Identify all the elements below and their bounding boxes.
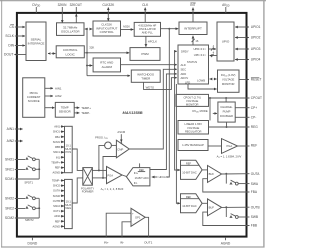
svg-text:OUT1: OUT1 xyxy=(53,209,60,213)
svg-text:AV = 1, 1.6384, 2V/V: AV = 1, 1.6384, 2V/V xyxy=(217,154,242,159)
svg-text:DRDY: DRDY xyxy=(181,50,189,54)
svg-text:OUTA: OUTA xyxy=(53,189,60,193)
svg-text:DIN: DIN xyxy=(8,44,14,48)
wire control logic to PWM xyxy=(84,52,129,54)
svg-text:ALD: ALD xyxy=(181,63,186,67)
pin CP+ (right) xyxy=(235,106,257,110)
wire status LPD to DVDD monitor xyxy=(188,84,217,89)
switch SPDT1 common xyxy=(24,159,40,184)
pin UPIO3 (right, bidirectional) xyxy=(235,47,260,51)
pin DIN (left) xyxy=(8,44,25,48)
svg-text:SWA: SWA xyxy=(251,182,259,186)
pin DGND (bottom) xyxy=(28,237,38,246)
svg-text:BUF: BUF xyxy=(209,206,215,210)
svg-text:IN-: IN- xyxy=(134,181,138,185)
wire to RTC and alarm xyxy=(87,65,92,67)
svg-text:WDTO: WDTO xyxy=(146,85,155,89)
svg-text:OUTB: OUTB xyxy=(53,199,60,203)
block PWM xyxy=(130,48,160,61)
svg-text:REF: REF xyxy=(251,144,257,148)
svg-text:REG: REG xyxy=(251,125,258,129)
svg-text:CP-: CP- xyxy=(251,116,256,120)
svg-text:MONITOR: MONITOR xyxy=(186,103,199,107)
wire current source AIN2 xyxy=(45,94,62,98)
svg-text:OUTB: OUTB xyxy=(251,205,260,209)
svg-text:SNC1: SNC1 xyxy=(5,168,14,172)
wire polarity former to PGA (pos) xyxy=(92,169,106,171)
wire DRDY + DAC A data xyxy=(175,51,180,170)
svg-text:IN-: IN- xyxy=(120,241,124,245)
wire HFCLK into ADC xyxy=(152,175,168,179)
svg-text:-: - xyxy=(132,222,133,226)
svg-text:TEMP-: TEMP- xyxy=(81,111,90,115)
svg-text:10-BIT DAC: 10-BIT DAC xyxy=(182,171,196,175)
svg-text:PUMP: PUMP xyxy=(223,110,231,114)
block RTC AND ALARM xyxy=(93,58,120,72)
wire DAC B to buffer B xyxy=(202,202,207,204)
svg-text:AIN2: AIN2 xyxy=(54,214,60,218)
svg-text:INTERFACE: INTERFACE xyxy=(28,42,45,46)
wire FBB feedback xyxy=(203,212,250,225)
svg-text:RESET: RESET xyxy=(251,78,262,82)
svg-text:STATUS: STATUS xyxy=(187,60,197,64)
svg-text:SCM2: SCM2 xyxy=(5,216,14,220)
block linear 1.65V voltage regulator xyxy=(178,121,209,135)
svg-text:MAX1358B: MAX1358B xyxy=(123,110,143,115)
DAC A 10-bit xyxy=(181,160,203,179)
svg-text:1.25V BANDGAP: 1.25V BANDGAP xyxy=(182,143,204,147)
block 32.768kHz oscillator xyxy=(57,23,85,36)
svg-text:IN1: IN1 xyxy=(56,155,61,159)
svg-text:UPIO3: UPIO3 xyxy=(251,47,261,51)
pin UPIO1 (right, bidirectional) xyxy=(235,25,260,29)
switch SWA xyxy=(226,174,249,185)
svg-text:DVDD (1.8V): DVDD (1.8V) xyxy=(221,73,236,78)
svg-text:TEMP+: TEMP+ xyxy=(81,106,91,110)
mux POS inputs xyxy=(51,125,64,175)
svg-text:DVDD MODE: DVDD MODE xyxy=(192,109,207,114)
pin INT (top) xyxy=(190,3,195,22)
svg-text:ADOV: ADOV xyxy=(181,76,189,80)
block PROG CURRENT SOURCE xyxy=(23,78,45,118)
wire current source AIN1 xyxy=(45,86,62,90)
svg-text:SCLK: SCLK xyxy=(5,34,14,38)
svg-text:SCM2: SCM2 xyxy=(53,194,61,198)
wire HF osc down to HFCLK xyxy=(167,29,170,177)
block TEMP SENSOR xyxy=(55,102,74,117)
wire OUTA xyxy=(222,173,250,175)
svg-text:32K: 32K xyxy=(89,45,94,49)
pin SNO2 + switch contact xyxy=(5,195,39,201)
svg-text:AV = 1, 2, 4, 8 BUF: AV = 1, 2, 4, 8 BUF xyxy=(101,187,124,192)
svg-text:TEMP+: TEMP+ xyxy=(51,160,60,164)
block STATUS xyxy=(178,45,209,84)
svg-text:32KOUT: 32KOUT xyxy=(70,3,82,7)
svg-text:VOLTAGE: VOLTAGE xyxy=(186,99,199,103)
svg-text:AIN1: AIN1 xyxy=(7,127,14,131)
svg-text:CONTROL: CONTROL xyxy=(100,30,115,34)
mux POS 10:1 xyxy=(65,126,73,172)
svg-text:REF: REF xyxy=(55,219,61,223)
wire status to interrupt 16-bus xyxy=(192,36,199,45)
wire status LOWB to DVDD monitor (bidirectional) xyxy=(210,78,217,80)
svg-text:SNC1: SNC1 xyxy=(53,150,60,154)
pin AVDD (top) xyxy=(222,3,230,13)
svg-text:CLK32K: CLK32K xyxy=(102,3,115,7)
block WATCHDOG TIMER xyxy=(131,70,160,82)
block CONTROL LOGIC xyxy=(56,46,84,58)
svg-text:REGULATOR: REGULATOR xyxy=(185,130,202,134)
switch SPDT2 common xyxy=(25,198,40,222)
wire WDTO to status xyxy=(144,78,177,90)
amplifier PGA xyxy=(107,167,123,184)
pin CLK (top) xyxy=(142,3,149,22)
svg-text:16-BIT ADC: 16-BIT ADC xyxy=(135,176,149,180)
svg-text:PGA: PGA xyxy=(227,144,233,148)
block CPOUT voltage monitor xyxy=(176,94,209,106)
wire OUTB xyxy=(222,206,250,208)
svg-text:AVDD: AVDD xyxy=(222,3,230,8)
wire riser to CMP - xyxy=(103,157,116,178)
wire to watchdog timer xyxy=(87,75,130,77)
svg-text:IN+: IN+ xyxy=(104,241,109,245)
svg-text:OUT1: OUT1 xyxy=(144,241,153,245)
pin RESET (right) xyxy=(251,77,262,81)
ADC sigma-delta 16-bit xyxy=(126,163,149,186)
svg-text:CMP: CMP xyxy=(117,147,123,151)
svg-text:CS: CS xyxy=(9,25,14,29)
wire DVDD MODE to charge pump xyxy=(192,109,217,114)
wire mux POS out to polarity former xyxy=(72,149,83,170)
pin SCM1 (left) xyxy=(5,177,39,181)
svg-text:AGND: AGND xyxy=(221,242,231,246)
wire CLK32K control to HF osc (M32K) xyxy=(121,25,134,30)
wire HF osc to interrupt xyxy=(161,28,179,30)
mux NEG 10:1 xyxy=(65,179,73,228)
pin AGND (bottom) xyxy=(221,237,231,246)
svg-text:SCM1: SCM1 xyxy=(5,177,14,181)
svg-text:SOURCE: SOURCE xyxy=(28,99,40,103)
block CLK32K input/output control xyxy=(93,21,121,36)
svg-text:UPIO4: UPIO4 xyxy=(251,58,261,62)
wire CMP out to status xyxy=(129,69,177,149)
svg-text:SENSOR: SENSOR xyxy=(59,110,71,114)
svg-text:HFCLK: HFCLK xyxy=(159,175,168,179)
pin UPIO4 (right, bidirectional) xyxy=(235,58,260,62)
svg-text:FBB: FBB xyxy=(55,145,60,149)
svg-text:CLK: CLK xyxy=(142,3,149,7)
svg-text:AGND: AGND xyxy=(53,224,61,228)
svg-text:AGND: AGND xyxy=(53,171,61,175)
wire osc to clk32k control (bidirectional) xyxy=(85,28,92,30)
pin CLK32K (top, bidirectional) xyxy=(102,3,115,21)
svg-text:SEC: SEC xyxy=(181,67,187,71)
svg-text:SNO1: SNO1 xyxy=(5,158,14,162)
wire Ipu to CMP xyxy=(111,144,116,146)
pin DOUT (left) xyxy=(4,53,26,57)
svg-text:CP+: CP+ xyxy=(251,106,257,110)
wire OP1 to OUT1 xyxy=(145,217,148,237)
svg-text:AIN1: AIN1 xyxy=(55,86,62,90)
svg-text:CPOUT: CPOUT xyxy=(251,96,262,100)
svg-text:SNC2: SNC2 xyxy=(5,207,14,211)
wire CPOUT net xyxy=(209,97,250,121)
svg-text:SPDT1: SPDT1 xyxy=(24,180,33,184)
svg-text:REF: REF xyxy=(55,166,61,170)
svg-text:SCM1: SCM1 xyxy=(53,140,61,144)
svg-text:INT: INT xyxy=(190,3,195,7)
wire IN+ to OP1 xyxy=(106,213,131,237)
block polarity former xyxy=(81,168,94,194)
pin SNC1 + switch contact xyxy=(5,166,39,172)
wire HFCLK to PWM xyxy=(146,36,157,47)
svg-text:UPIO2: UPIO2 xyxy=(251,36,261,40)
svg-text:AND PLL: AND PLL xyxy=(142,31,154,35)
svg-text:DOUBLER: DOUBLER xyxy=(220,114,233,118)
svg-text:DGND: DGND xyxy=(28,242,38,246)
pin CS (left) xyxy=(9,25,25,30)
svg-text:OP1: OP1 xyxy=(135,215,141,219)
DAC B 10-bit xyxy=(181,194,203,213)
wire bandgap to REF buffer xyxy=(208,145,222,147)
pin SCM2 (left) xyxy=(5,216,39,220)
wire 32K vertical bus xyxy=(86,29,88,76)
pin AIN1 (left) xyxy=(7,127,23,131)
op-amp buffer B xyxy=(208,199,222,216)
svg-text:FBA: FBA xyxy=(55,135,60,139)
svg-text:SNO2: SNO2 xyxy=(53,184,61,188)
svg-text:AIN2: AIN2 xyxy=(7,139,14,143)
svg-text:REF: REF xyxy=(186,161,192,165)
svg-text:UPIO1: UPIO1 xyxy=(251,25,261,29)
wire status UPR to UPIO 4-bus xyxy=(209,44,217,51)
pin SNO1 + switch contact xyxy=(5,156,39,162)
wire TEMP+ xyxy=(74,106,91,110)
block 1.25V bandgap xyxy=(178,140,208,151)
svg-text:PGA: PGA xyxy=(107,174,113,178)
svg-text:FBA: FBA xyxy=(251,190,258,194)
svg-text:SNO2: SNO2 xyxy=(5,197,14,201)
pin UPIO2 (right, bidirectional) xyxy=(235,36,260,40)
svg-text:UPIO: UPIO xyxy=(222,40,230,44)
chip outline xyxy=(17,13,247,237)
svg-text:VOLTAGE: VOLTAGE xyxy=(187,126,200,130)
svg-text:REF: REF xyxy=(186,195,192,199)
svg-text:AIN1: AIN1 xyxy=(54,125,60,129)
svg-text:OSCILLATOR: OSCILLATOR xyxy=(139,27,156,31)
svg-text:ADD: ADD xyxy=(181,72,187,76)
wire FBA feedback xyxy=(203,179,250,192)
svg-text:UPF<4:1>: UPF<4:1> xyxy=(194,53,207,57)
node at RTC tap xyxy=(86,65,88,67)
svg-text:DVDD: DVDD xyxy=(32,3,40,8)
wire serial interface to control logic (bidirectional) xyxy=(48,53,55,55)
block SERIAL INTERFACE xyxy=(26,22,46,61)
wire IN- to OP1 xyxy=(122,222,131,237)
op-amp OP1 xyxy=(131,208,145,226)
mux NEG inputs xyxy=(52,179,64,229)
svg-text:LPD: LPD xyxy=(185,80,190,84)
svg-text:OSCILLATOR: OSCILLATOR xyxy=(61,30,81,34)
wire PGA to ADC xyxy=(122,175,126,176)
wire DAC A to buffer A xyxy=(202,169,207,171)
svg-text:CPOUT (2.7V): CPOUT (2.7V) xyxy=(183,96,201,100)
svg-text:SWB: SWB xyxy=(251,215,258,219)
svg-text:NEG: NEG xyxy=(65,206,71,210)
svg-text:INTERRUPT: INTERRUPT xyxy=(184,26,202,30)
block 4.9152MHz HF oscillator and PLL xyxy=(134,22,160,36)
svg-text:ASCM: ASCM xyxy=(117,130,126,134)
wire TEMP- xyxy=(74,111,90,115)
pin SCLK (left) xyxy=(5,34,25,38)
svg-text:IN+: IN+ xyxy=(134,171,139,175)
svg-text:16: 16 xyxy=(195,39,198,43)
svg-text:HFCLK: HFCLK xyxy=(148,39,157,43)
node 32K junction xyxy=(86,28,88,30)
comparator CMP xyxy=(116,140,129,158)
svg-text:FORMER: FORMER xyxy=(82,190,94,194)
svg-text:PWM: PWM xyxy=(141,52,149,56)
svg-text:AIN2: AIN2 xyxy=(55,94,62,98)
wire RTC to status ALD xyxy=(121,64,177,66)
svg-text:FBB: FBB xyxy=(251,224,257,228)
svg-text:TEMP-: TEMP- xyxy=(52,179,60,183)
wire riser to prog Ipu line / CMP + xyxy=(99,145,105,170)
wire DVDD monitor to RESET xyxy=(239,79,249,81)
svg-text:VOLTAGE: VOLTAGE xyxy=(222,78,235,82)
svg-text:SNC2: SNC2 xyxy=(53,204,60,208)
svg-text:SPDT2: SPDT2 xyxy=(25,218,34,222)
op-amp REF buffer xyxy=(222,139,238,154)
svg-text:LOWB: LOWB xyxy=(197,78,205,82)
wire regulator to REG pin xyxy=(209,122,250,128)
node at control logic tap xyxy=(86,52,88,54)
svg-text:OUTA: OUTA xyxy=(251,172,260,176)
svg-text:LOGIC: LOGIC xyxy=(66,52,76,56)
wire ADC data up to bus xyxy=(150,74,177,170)
block UPIO xyxy=(217,22,234,61)
svg-text:M32K: M32K xyxy=(123,25,130,29)
current source PROG Ipu xyxy=(95,136,111,149)
svg-text:CHARGE-: CHARGE- xyxy=(220,105,232,109)
svg-text:BUF: BUF xyxy=(209,172,215,176)
svg-text:4.9152MHz HF: 4.9152MHz HF xyxy=(138,23,156,27)
block charge-pump doubler xyxy=(218,102,235,122)
svg-text:DOUT: DOUT xyxy=(4,53,13,57)
svg-text:MONITOR: MONITOR xyxy=(222,82,235,86)
svg-text:32KIN: 32KIN xyxy=(58,3,68,7)
pin 32KIN (top) xyxy=(58,3,68,23)
svg-text:SNO1: SNO1 xyxy=(53,130,61,134)
pin AIN2 (left) xyxy=(7,139,23,143)
pin ASCM (internal signal) xyxy=(117,130,126,144)
pin CP- (right) xyxy=(235,116,256,120)
pin SNC2 + switch contact xyxy=(5,205,39,211)
block INTERRUPT xyxy=(179,22,207,35)
pin 32KOUT (top) xyxy=(70,3,82,23)
block DVDD voltage monitor xyxy=(218,70,240,92)
op-amp buffer A xyxy=(208,166,222,183)
wire polarity former to PGA (neg) xyxy=(92,177,106,179)
pin DVDD (top) xyxy=(32,3,40,13)
svg-text:ALARM: ALARM xyxy=(102,65,113,69)
svg-text:UPR<4:1>: UPR<4:1> xyxy=(193,47,206,51)
svg-text:10-BIT DAC: 10-BIT DAC xyxy=(182,204,196,208)
wire current source to temp sensor xyxy=(45,107,55,109)
wire REF buffer to REF pin xyxy=(238,145,250,147)
svg-text:TIMER: TIMER xyxy=(141,76,150,80)
wire mux NEG out to polarity former xyxy=(72,178,83,203)
switch SWB xyxy=(226,207,249,218)
svg-text:POS: POS xyxy=(65,150,71,154)
svg-text:LINEAR 1.65V: LINEAR 1.65V xyxy=(184,122,202,126)
wire UPIO to status UPF 4-bus xyxy=(210,50,217,57)
wire DAC B data xyxy=(176,84,180,203)
